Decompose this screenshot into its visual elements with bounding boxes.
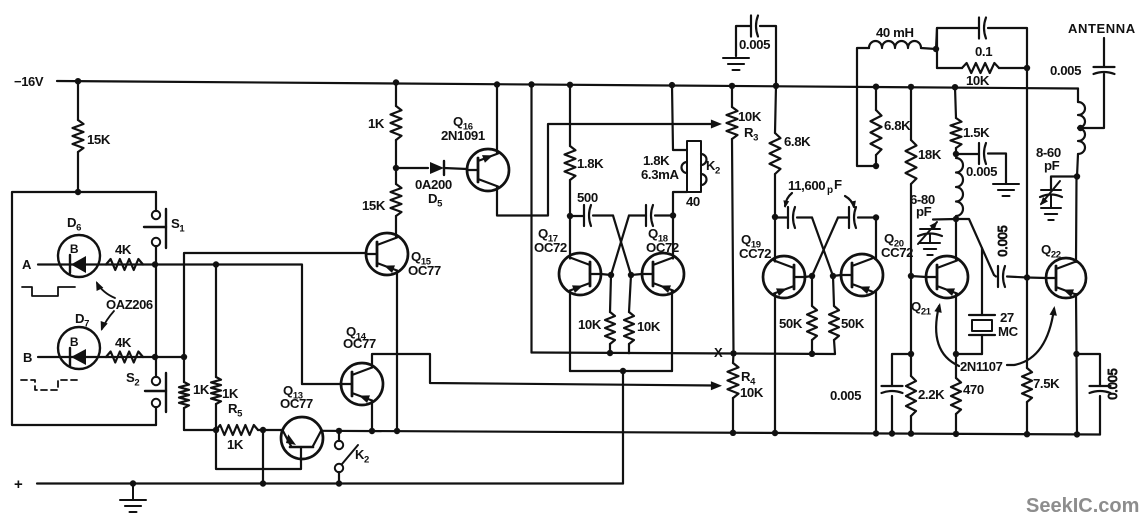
wire Q14 collector to R4 wiper — [372, 354, 722, 390]
wire Q18 base lead — [628, 272, 642, 278]
resistor 15K (Q15) — [391, 168, 402, 237]
svg-text:6.8K: 6.8K — [784, 134, 811, 149]
node A junction at box — [152, 261, 158, 267]
node B-line junction — [181, 354, 187, 360]
waveform at A — [22, 287, 75, 296]
label 0.005 (coupling) — [996, 225, 1010, 256]
svg-text:40: 40 — [686, 194, 700, 209]
label pF (6-80) — [916, 204, 932, 219]
node X — [730, 350, 736, 356]
diode D6 OAZ206 — [58, 235, 100, 277]
wire Q22 emitter to rail — [1074, 354, 1080, 438]
svg-text:0.005: 0.005 — [1050, 63, 1081, 78]
diode D7 OAZ206 — [58, 327, 100, 369]
svg-text:D5: D5 — [428, 191, 443, 210]
label D5 — [428, 191, 443, 210]
wire Q13 emitter to + rail — [260, 430, 266, 487]
label 0.1 — [975, 44, 992, 59]
label 2.2K — [918, 387, 945, 402]
switch S1 — [144, 209, 166, 265]
resistor 10K (parallel) — [937, 28, 1027, 73]
arrow 2N1107 to Q21 — [934, 303, 959, 366]
label 1K (Q15) — [368, 116, 385, 131]
resistor 4K (B) — [106, 352, 143, 363]
resistor 50K (Q20 base) — [829, 276, 839, 354]
svg-text:X: X — [714, 345, 723, 360]
label CC72 (Q20) — [881, 245, 913, 260]
label 1.5K — [963, 125, 990, 140]
svg-text:15K: 15K — [87, 132, 111, 147]
svg-text:4K: 4K — [115, 242, 132, 257]
switch S2 — [145, 357, 166, 425]
transistor Q16 2N1091 — [467, 149, 509, 191]
capacitor 0.005 to ground (top) — [736, 16, 776, 86]
wire base column — [910, 276, 912, 354]
wire cross to Q19 base — [812, 218, 838, 277]
resistor 10K (Q18 base) — [624, 275, 634, 353]
wire -16V supply rail — [57, 81, 1078, 89]
trimmer capacitor 8-60pF — [1040, 181, 1062, 207]
label 1K (R5) — [227, 437, 244, 452]
wire Q20 emitter — [873, 292, 879, 437]
label D6 — [67, 215, 81, 234]
svg-text:1.8K: 1.8K — [643, 153, 670, 168]
label 27 — [1000, 310, 1014, 325]
wire coil to trimmer — [1051, 177, 1077, 190]
wire R5 to Q13 emitter — [258, 429, 283, 431]
wire input B — [38, 356, 155, 358]
transistor Q21 2N1107 — [926, 256, 968, 298]
svg-text:0.005: 0.005 — [830, 388, 861, 403]
ground on + rail — [120, 480, 146, 512]
label 0A200 — [415, 177, 452, 192]
svg-text:CC72: CC72 — [881, 245, 913, 260]
wire input module box — [12, 192, 156, 425]
label 1.8K (Q17) — [577, 156, 604, 171]
potentiometer R3 10K — [727, 83, 738, 353]
wire X line — [532, 353, 836, 355]
label 18K — [918, 147, 942, 162]
node D5 junction — [393, 165, 399, 171]
label Q21 — [911, 299, 932, 318]
wire relay bottom — [673, 192, 687, 216]
label X — [714, 345, 723, 360]
label Q22 — [1041, 242, 1061, 261]
svg-text:A: A — [22, 257, 32, 272]
wire relay top — [669, 82, 687, 150]
resistor 6.8K (Q19) — [770, 83, 781, 217]
wire Q13 base return — [216, 430, 301, 469]
svg-text:OC77: OC77 — [408, 263, 441, 278]
label 10K (R3) — [738, 109, 762, 124]
svg-text:MC: MC — [998, 324, 1019, 339]
diode D5 0A200 — [396, 161, 467, 175]
resistor 2.2K — [906, 354, 916, 437]
switch K2 — [335, 431, 358, 484]
arrow 2N1107 to Q22 — [1007, 306, 1057, 365]
label 10K (R4) — [740, 385, 764, 400]
node Q17 collector — [567, 213, 573, 219]
wire Q18 emitter — [671, 291, 673, 372]
label Q18 — [648, 226, 668, 245]
svg-text:CC72: CC72 — [739, 246, 771, 261]
label 1K (second) — [222, 386, 239, 401]
resistor 15K — [73, 78, 84, 195]
inductor antenna coil — [1077, 89, 1085, 177]
svg-text:50K: 50K — [779, 316, 803, 331]
wire Q17 collector lead — [569, 216, 571, 259]
transistor Q19 CC72 — [763, 256, 805, 298]
transistor Q13 OC77 — [281, 417, 323, 459]
svg-text:R3: R3 — [744, 125, 758, 144]
wire cross to Q18 base — [613, 216, 631, 276]
wire to + rail — [622, 371, 624, 484]
svg-text:OAZ206: OAZ206 — [106, 297, 153, 312]
svg-text:15K: 15K — [362, 198, 386, 213]
node tank bottom — [953, 216, 959, 222]
resistor 50K (Q19 base) — [807, 276, 817, 357]
label Q17 — [538, 226, 558, 245]
label Q19 — [741, 232, 761, 251]
svg-text:OC77: OC77 — [280, 396, 313, 411]
label 10K (Q18 base) — [637, 319, 661, 334]
wire Q17 base lead — [601, 272, 614, 278]
wire cross to Q17 base — [611, 216, 629, 276]
capacitor 0.005 (tank) — [956, 143, 1006, 183]
wire Q14 base — [302, 383, 341, 385]
label CC72 (Q19) — [739, 246, 771, 261]
wire cross to Q20 base — [812, 218, 833, 277]
label + — [14, 476, 23, 493]
label D7 — [75, 311, 89, 330]
svg-text:10K: 10K — [966, 73, 990, 88]
wire Q19 emitter — [772, 294, 778, 437]
wire Q22 collector — [1075, 177, 1078, 263]
svg-text:OC72: OC72 — [534, 240, 567, 255]
node Q13 emitter junction — [260, 427, 266, 433]
svg-text:p: p — [827, 185, 833, 196]
wire x532 dropper — [528, 81, 534, 352]
svg-text:7.5K: 7.5K — [1033, 376, 1060, 391]
label OC77 (Q14) — [343, 336, 376, 351]
svg-text:B: B — [70, 242, 79, 256]
label 11,600 pF — [788, 177, 842, 196]
node antenna tap — [1077, 125, 1083, 131]
label 0.005 (output) — [1106, 368, 1120, 399]
svg-text:B: B — [70, 335, 79, 349]
ground (top center) — [723, 58, 749, 70]
node B junction at box — [152, 354, 158, 360]
svg-text:R5: R5 — [228, 401, 243, 420]
label R5 — [228, 401, 243, 420]
node 18K bottom — [908, 351, 914, 357]
node Q21 base — [908, 273, 926, 279]
label K2 switch — [355, 447, 369, 466]
label OC72 (Q17) — [534, 240, 567, 255]
resistor 4K (A) — [106, 259, 143, 270]
label 15K — [87, 132, 111, 147]
label 0.005 (antenna) — [1050, 63, 1081, 78]
svg-text:OC77: OC77 — [343, 336, 376, 351]
wire input A — [38, 263, 155, 265]
label 470 — [963, 382, 984, 397]
label ANTENNA — [1068, 21, 1136, 36]
wire Q20 base lead — [830, 273, 841, 279]
wire Q18 collector lead — [672, 216, 674, 259]
label B input — [23, 350, 32, 365]
label 2N1091 (Q16) — [441, 128, 485, 143]
label 15K (Q15) — [362, 198, 386, 213]
label 6-80 — [910, 192, 935, 207]
label R3 — [744, 125, 758, 144]
label 1K (first) — [193, 382, 210, 397]
ground (6-80 trimmer) — [920, 243, 940, 255]
resistor 1.5K — [951, 84, 962, 154]
label 40mH — [876, 25, 914, 40]
node Q19 collector — [772, 214, 778, 220]
node Q22 emitter — [1073, 351, 1079, 357]
node Q21 emitter — [953, 351, 959, 357]
label K2 (relay) — [706, 158, 720, 177]
resistor 6.8K (Q20 coll) — [871, 84, 882, 167]
arrow OAZ206 to D7 — [101, 311, 114, 331]
node coil bottom — [1074, 173, 1080, 179]
svg-text:470: 470 — [963, 382, 984, 397]
transistor Q17 OC72 — [559, 253, 601, 295]
label A — [22, 257, 32, 272]
resistor 1K (second) — [211, 265, 221, 431]
label 4K (B) — [115, 335, 132, 350]
arrow to right cap — [845, 196, 856, 209]
wire Q21 collector — [955, 219, 957, 261]
label MC — [998, 324, 1019, 339]
label Q13 — [283, 383, 303, 402]
svg-text:1K: 1K — [368, 116, 385, 131]
node 40mH-6.8K — [873, 163, 879, 169]
wire box right edge upper — [155, 192, 157, 211]
wire Q20 collector lead — [875, 218, 877, 260]
inductor tank coil — [956, 158, 963, 216]
svg-text:1K: 1K — [193, 382, 210, 397]
resistor 7.5K — [1022, 278, 1032, 438]
svg-text:2.2K: 2.2K — [918, 387, 945, 402]
label 6.8K (Q20) — [884, 118, 911, 133]
resistor 1K (first) — [179, 357, 216, 430]
capacitor 0.005 (Q21 base) — [882, 354, 912, 437]
svg-text:F: F — [834, 177, 842, 192]
svg-text:2N1091: 2N1091 — [441, 128, 485, 143]
capacitor 40 — [629, 205, 673, 226]
wire A line — [155, 265, 302, 385]
wire + supply rail — [37, 482, 623, 484]
label 0.005 (tank) — [966, 164, 997, 179]
wire B line extension — [155, 356, 184, 358]
capacitor 0.005 antenna — [1081, 38, 1115, 128]
wire Q19 base lead — [805, 273, 815, 279]
resistor R5 1K — [216, 425, 258, 435]
svg-text:B: B — [23, 350, 32, 365]
relay coil K2 1.8K 6.3mA — [682, 141, 707, 192]
svg-text:K2: K2 — [706, 158, 720, 177]
svg-text:0.005: 0.005 — [996, 225, 1010, 256]
svg-text:K2: K2 — [355, 447, 369, 466]
wire to trimmer 6-80 — [933, 218, 956, 221]
label 6.8K (Q19) — [784, 134, 811, 149]
wire Q19 collector lead — [774, 217, 776, 262]
wire Q22 emitter — [1075, 294, 1078, 354]
wire Q15 emitter — [394, 271, 400, 435]
svg-text:50K: 50K — [841, 316, 865, 331]
svg-text:0.005: 0.005 — [1106, 368, 1120, 399]
label B in D6 — [70, 242, 79, 256]
resistor 470 — [951, 354, 961, 437]
ground (tank cap) — [993, 184, 1019, 196]
wire Q16 emitter to rail — [494, 81, 500, 153]
label 50K (Q20) — [841, 316, 865, 331]
label 2N1107 — [960, 359, 1003, 374]
label 0.005 (top) — [739, 37, 770, 52]
wire tank to coupling cap — [956, 219, 996, 277]
svg-text:Q22: Q22 — [1041, 242, 1061, 261]
transistor Q22 2N1107 — [1046, 258, 1086, 298]
svg-text:D6: D6 — [67, 215, 81, 234]
resistor 18K — [906, 84, 917, 276]
label -16V — [14, 74, 44, 89]
node emitter tie — [620, 368, 626, 374]
svg-text:pF: pF — [916, 204, 932, 219]
label Q14 — [346, 324, 367, 343]
label 10K (Q17 base) — [578, 317, 602, 332]
svg-text:0.005: 0.005 — [966, 164, 997, 179]
svg-text:−16V: −16V — [14, 74, 44, 89]
resistor 1K (Q15 collector) — [391, 79, 402, 168]
label OC77 (Q15) — [408, 263, 441, 278]
svg-text:10K: 10K — [740, 385, 764, 400]
svg-text:4K: 4K — [115, 335, 132, 350]
resistor 10K (Q17 base) — [605, 275, 615, 356]
node tank top — [953, 151, 959, 157]
svg-text:+: + — [14, 476, 23, 493]
wire box right edge mid — [155, 265, 157, 358]
label Q20 — [884, 231, 904, 250]
wire feedback column — [1026, 68, 1028, 278]
label 6.3mA (relay) — [641, 167, 679, 182]
wire Q15 base line — [184, 253, 366, 357]
svg-text:18K: 18K — [918, 147, 942, 162]
svg-text:500: 500 — [577, 190, 598, 205]
label 50K (Q19) — [779, 316, 803, 331]
label 10K (parallel) — [966, 73, 990, 88]
label 500 — [577, 190, 598, 205]
capacitor 0.1 with 10K loop — [933, 18, 1030, 72]
trimmer capacitor 6-80pF — [918, 222, 942, 245]
label OAZ206 — [106, 297, 153, 312]
label 40 — [686, 194, 700, 209]
node Q22 base — [1024, 274, 1046, 280]
label 7.5K — [1033, 376, 1060, 391]
node K2 bottom — [336, 480, 342, 486]
svg-text:pF: pF — [1044, 158, 1060, 173]
label 4K (A) — [115, 242, 132, 257]
svg-text:6.3mA: 6.3mA — [641, 167, 679, 182]
svg-text:0A200: 0A200 — [415, 177, 452, 192]
label pF (8-60) — [1044, 158, 1060, 173]
ground (8-60 trimmer) — [1041, 208, 1061, 220]
capacitor 0.005 (output) — [1077, 354, 1111, 435]
node K2 top — [336, 428, 342, 434]
arrow to left cap — [783, 193, 792, 208]
svg-text:10K: 10K — [637, 319, 661, 334]
label OC77 (Q13) — [280, 396, 313, 411]
crystal 27MC — [956, 248, 995, 354]
wire Q16 collector path — [497, 120, 722, 216]
svg-text:2N1107: 2N1107 — [960, 359, 1003, 374]
label 1.8K (relay) — [643, 153, 670, 168]
wire Q21 emitter — [955, 294, 957, 355]
waveform at B (dashed) — [21, 380, 77, 390]
node Q20 collector — [873, 214, 879, 220]
node R5 left junction — [213, 427, 219, 433]
node A-1K junction — [213, 261, 219, 267]
label R4 — [741, 369, 756, 388]
svg-text:6.8K: 6.8K — [884, 118, 911, 133]
label S1 — [171, 216, 185, 235]
wire emitter tie line — [570, 370, 672, 372]
label S2 — [126, 370, 139, 389]
label B in D7 — [70, 335, 79, 349]
transistor Q14 OC77 — [341, 363, 383, 405]
svg-text:S2: S2 — [126, 370, 139, 389]
wire bottom common rail — [321, 431, 1100, 435]
svg-text:0.005: 0.005 — [739, 37, 770, 52]
watermark SeekIC.com — [1026, 495, 1139, 517]
svg-text:40 mH: 40 mH — [876, 25, 914, 40]
label OC72 (Q18) — [646, 240, 679, 255]
potentiometer R4 10K — [728, 353, 739, 436]
transistor Q15 OC77 — [366, 233, 408, 275]
svg-text:27: 27 — [1000, 310, 1014, 325]
arrow OAZ206 to D6 — [96, 281, 115, 298]
capacitor 11600pF right — [838, 207, 876, 228]
svg-text:0.1: 0.1 — [975, 44, 992, 59]
label Q16 — [453, 114, 473, 133]
inductor 40mH — [857, 41, 936, 166]
capacitor 500 — [570, 205, 613, 226]
wire Q14 emitter — [369, 401, 375, 435]
svg-text:1.5K: 1.5K — [963, 125, 990, 140]
svg-text:1.8K: 1.8K — [577, 156, 604, 171]
label Q15 — [411, 249, 432, 268]
svg-text:ANTENNA: ANTENNA — [1068, 21, 1136, 36]
capacitor 0.005 coupling — [998, 266, 1027, 287]
wire Q17 emitter — [569, 291, 571, 372]
svg-text:10K: 10K — [578, 317, 602, 332]
svg-text:10K: 10K — [738, 109, 762, 124]
svg-text:1K: 1K — [222, 386, 239, 401]
capacitor 11600pF left — [775, 207, 812, 228]
transistor Q20 CC72 — [841, 254, 883, 296]
node Q18 collector — [670, 212, 676, 218]
svg-text:S1: S1 — [171, 216, 185, 235]
label 8-60 — [1036, 145, 1061, 160]
svg-text:SeekIC.com: SeekIC.com — [1026, 495, 1139, 517]
svg-text:11,600: 11,600 — [788, 178, 825, 193]
label 0.005 (Q21 base) — [830, 388, 861, 403]
svg-text:1K: 1K — [227, 437, 244, 452]
resistor 1.8K (Q17) — [565, 82, 576, 216]
svg-text:Q21: Q21 — [911, 299, 932, 318]
transistor Q18 OC72 — [642, 253, 684, 295]
